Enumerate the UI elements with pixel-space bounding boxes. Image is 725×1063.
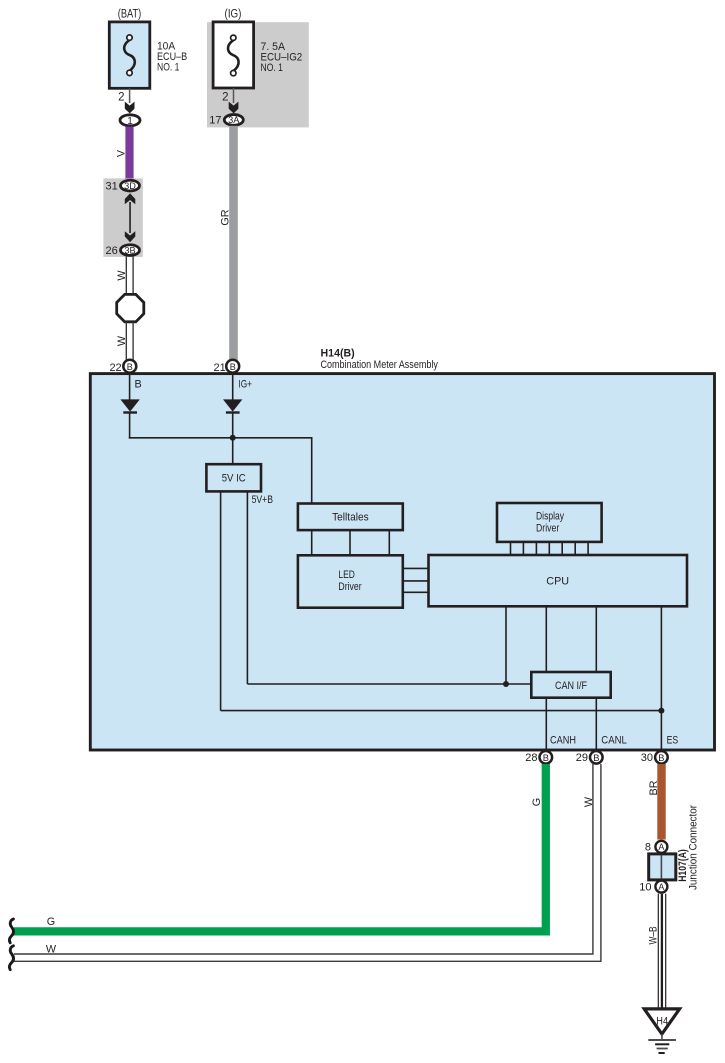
svg-text:3A: 3A — [228, 115, 240, 125]
svg-text:NO. 1: NO. 1 — [157, 62, 179, 74]
5V IC block — [206, 464, 261, 491]
svg-text:H14(B): H14(B) — [321, 347, 356, 359]
wire diode D1 to bus — [129, 412, 131, 439]
wire 5V IC left output down — [220, 491, 222, 710]
svg-text:3B: 3B — [124, 245, 135, 255]
svg-text:Junction Connector: Junction Connector — [688, 805, 700, 890]
CPU block — [429, 555, 688, 606]
svg-text:B: B — [127, 362, 133, 372]
svg-text:Driver: Driver — [338, 581, 362, 593]
H14(B) Combination Meter Assembly box — [90, 374, 714, 750]
fuse 10A ECU-B NO.1 body — [109, 22, 150, 88]
wire V (violet) — [125, 127, 133, 179]
wire CPU to junction on 5V+B line — [505, 606, 507, 684]
wires telltales to LED driver (3 pins) — [312, 530, 390, 555]
svg-text:30: 30 — [641, 752, 653, 764]
svg-text:CANH: CANH — [550, 735, 576, 747]
svg-text:(BAT): (BAT) — [118, 9, 142, 21]
wire W (white, 3B to octagon) — [126, 256, 133, 295]
svg-text:2: 2 — [222, 92, 228, 104]
wire diode D2 to bus — [232, 412, 234, 439]
svg-text:CAN I/F: CAN I/F — [555, 680, 587, 692]
junction node on bus — [230, 435, 236, 441]
svg-text:H4: H4 — [656, 1015, 668, 1027]
svg-text:CPU: CPU — [546, 576, 569, 588]
ground symbol — [648, 1034, 676, 1053]
svg-text:LED: LED — [338, 569, 355, 581]
fuse value label 10A ECU-B NO. 1 — [157, 41, 187, 74]
LED Driver block — [298, 555, 403, 607]
svg-text:IG+: IG+ — [238, 379, 252, 391]
svg-text:B: B — [543, 753, 549, 763]
svg-text:3D: 3D — [124, 181, 136, 191]
wire 5V IC right output down — [246, 491, 248, 684]
connector arrow (BAT) — [125, 102, 135, 114]
svg-text:Display: Display — [536, 510, 564, 522]
svg-text:V: V — [115, 149, 127, 157]
svg-text:Combination Meter Assembly: Combination Meter Assembly — [321, 359, 439, 371]
horizontal wire 5V+B to CAN I/F — [247, 683, 531, 685]
svg-text:A: A — [658, 842, 664, 852]
wire fuse BAT to arrow — [129, 88, 131, 103]
svg-text:Driver: Driver — [536, 523, 560, 535]
wires display driver to CPU (7 pins) — [511, 542, 589, 555]
wire W (white, CANL) — [14, 764, 601, 961]
connector oval 3D — [121, 180, 140, 191]
svg-text:17: 17 — [209, 115, 221, 127]
svg-text:B: B — [135, 378, 142, 390]
junction block gray background (IG) — [207, 22, 309, 127]
pin 21 circle B — [226, 360, 239, 373]
break symbol green wire — [9, 919, 13, 943]
break symbol white wire — [9, 946, 13, 970]
svg-text:Telltales: Telltales — [332, 512, 369, 524]
wire CPU to CAN I/F (CANL) — [595, 606, 597, 672]
connector oval 3B — [121, 245, 140, 256]
svg-text:31: 31 — [106, 181, 118, 193]
wire CAN I/F to pin 29 (CANL) — [595, 698, 597, 751]
svg-text:NO. 1: NO. 1 — [261, 62, 283, 74]
svg-text:10: 10 — [639, 882, 651, 894]
horizontal wire 5V IC to ES — [221, 710, 662, 712]
svg-text:W: W — [116, 270, 128, 281]
svg-text:G: G — [47, 916, 55, 928]
svg-text:28: 28 — [525, 752, 537, 764]
double arrow up — [125, 193, 136, 204]
svg-text:8: 8 — [645, 842, 651, 854]
connector block 3D/3B gray background — [103, 178, 142, 257]
bus wire diodes to telltales branch — [129, 438, 312, 504]
svg-text:ES: ES — [667, 735, 679, 747]
ground triangle H4 — [644, 1009, 679, 1034]
wire G (green, CANH) — [14, 764, 546, 931]
junction connector H107(A) box — [649, 854, 676, 880]
svg-text:2: 2 — [118, 92, 124, 104]
wire CAN I/F to pin 28 (CANH) — [545, 698, 547, 751]
svg-text:(IG): (IG) — [225, 9, 242, 21]
noise filter octagon — [117, 294, 144, 321]
svg-text:26: 26 — [106, 245, 118, 257]
svg-text:5V+B: 5V+B — [252, 494, 273, 506]
junction node CPU/5V+B — [503, 681, 509, 687]
svg-text:G: G — [531, 798, 543, 806]
svg-text:CANL: CANL — [601, 735, 627, 747]
pin 30 circle B — [655, 751, 668, 764]
component label H14(B) Combination Meter Assembly — [321, 347, 439, 371]
svg-text:BR: BR — [648, 780, 660, 795]
wire between arrows — [129, 202, 131, 233]
wires LED driver to CPU (3 lines) — [403, 568, 429, 592]
wire W-B (white-black) — [658, 894, 665, 1009]
component label H107(A) Junction Connector — [677, 805, 699, 890]
wire GR (gray) — [229, 126, 238, 361]
wire pin22 to diode D1 — [129, 373, 131, 400]
connector arrow (IG) — [229, 102, 239, 114]
svg-text:29: 29 — [576, 752, 588, 764]
fuse value label 7.5A ECU-IG2 NO. 1 — [261, 41, 303, 74]
connector oval 1 — [120, 115, 140, 127]
pin 10 circle A — [655, 881, 667, 893]
svg-text:W: W — [583, 796, 595, 807]
wire BR (brown, ES) — [657, 764, 665, 840]
pin 8 circle A — [655, 841, 667, 853]
Telltales block — [298, 504, 403, 531]
wire CPU to CAN I/F (CANH) — [545, 606, 547, 672]
fuse 7.5A ECU-IG2 NO.1 body — [213, 22, 254, 88]
double arrow down — [125, 231, 136, 242]
svg-text:B: B — [593, 753, 599, 763]
connector oval 3A — [224, 115, 243, 126]
wire W (white, octagon to pin 22) — [126, 322, 133, 362]
svg-text:GR: GR — [219, 209, 231, 225]
svg-text:W–B: W–B — [648, 926, 660, 944]
svg-text:W: W — [46, 943, 57, 955]
pin 22 circle B — [123, 360, 136, 373]
wire pin21 to diode D2 — [232, 373, 234, 400]
pin 29 circle B — [590, 751, 603, 764]
wire fuse IG to arrow — [233, 88, 235, 103]
diode D1 — [120, 399, 139, 412]
diode D2 — [223, 399, 242, 412]
wire bus to 5V IC — [232, 438, 234, 464]
svg-text:1: 1 — [127, 116, 133, 127]
svg-text:W: W — [116, 335, 128, 346]
junction node on ES wire — [658, 708, 664, 714]
CAN I/F block — [531, 672, 610, 698]
svg-text:5V IC: 5V IC — [222, 473, 246, 485]
svg-text:A: A — [658, 882, 664, 892]
svg-text:B: B — [658, 753, 664, 763]
Display Driver block — [497, 503, 602, 542]
wire CPU to ES pin — [660, 606, 662, 751]
pin 28 circle B — [540, 751, 553, 764]
svg-text:B: B — [230, 362, 236, 372]
